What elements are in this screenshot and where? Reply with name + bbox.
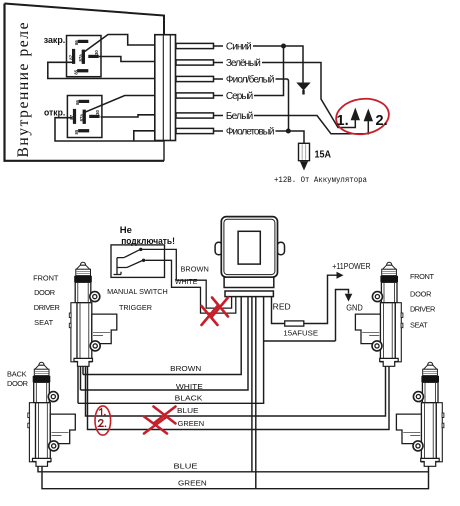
svg-text:BROWN: BROWN — [170, 364, 201, 373]
svg-text:Белый: Белый — [226, 111, 253, 122]
svg-text:87: 87 — [68, 54, 73, 59]
svg-text:откр.: откр. — [44, 107, 65, 118]
svg-text:подключать!: подключать! — [121, 236, 175, 247]
svg-text:+11POWER: +11POWER — [332, 262, 371, 271]
svg-text:DOOR: DOOR — [34, 288, 55, 297]
svg-text:Серый: Серый — [226, 91, 253, 102]
svg-text:BROWN: BROWN — [181, 264, 209, 273]
svg-text:RED: RED — [273, 303, 291, 312]
svg-text:30: 30 — [95, 110, 100, 115]
svg-text:87a: 87a — [79, 114, 84, 122]
svg-text:86: 86 — [75, 100, 80, 105]
svg-text:Зелёный: Зелёный — [226, 58, 261, 69]
svg-text:87: 87 — [69, 114, 74, 119]
svg-text:15A: 15A — [315, 148, 332, 160]
svg-text:87a: 87a — [78, 54, 83, 62]
svg-text:Фиолетовый: Фиолетовый — [226, 126, 275, 137]
svg-text:GND: GND — [346, 304, 363, 313]
svg-text:BLUE: BLUE — [174, 462, 198, 471]
svg-text:BLACK: BLACK — [175, 393, 203, 402]
svg-text:Фиол/белый: Фиол/белый — [226, 73, 275, 85]
svg-text:TRIGGER: TRIGGER — [119, 303, 152, 312]
svg-text:MANUAL SWITCH: MANUAL SWITCH — [107, 287, 168, 296]
svg-text:85: 85 — [74, 129, 79, 134]
svg-text:+12В. От Аккумулятора: +12В. От Аккумулятора — [274, 176, 367, 185]
svg-text:WHITE: WHITE — [175, 277, 198, 286]
svg-text:86: 86 — [74, 40, 79, 45]
svg-text:GREEN: GREEN — [178, 478, 207, 487]
svg-text:85: 85 — [73, 69, 78, 74]
svg-text:BACK: BACK — [7, 369, 27, 378]
svg-text:SEAT: SEAT — [34, 318, 53, 327]
svg-text:1.: 1. — [337, 113, 349, 129]
svg-text:DOOR: DOOR — [410, 290, 432, 299]
svg-text:FRONT: FRONT — [410, 272, 434, 281]
svg-text:закр.: закр. — [44, 35, 65, 46]
svg-text:2.: 2. — [376, 113, 388, 129]
svg-text:DRIVER: DRIVER — [34, 303, 60, 312]
svg-text:DOOR: DOOR — [7, 379, 28, 388]
svg-text:Синий: Синий — [226, 41, 252, 52]
svg-text:BLUE: BLUE — [177, 406, 199, 415]
svg-text:WHITE: WHITE — [176, 382, 203, 391]
svg-text:DRIVER: DRIVER — [410, 305, 435, 314]
svg-text:15AFUSE: 15AFUSE — [283, 329, 318, 338]
svg-text:30: 30 — [94, 50, 99, 55]
svg-text:SEAT: SEAT — [410, 321, 428, 330]
svg-text:Не: Не — [120, 225, 132, 236]
svg-text:GREEN: GREEN — [178, 419, 205, 428]
svg-text:FRONT: FRONT — [33, 274, 59, 283]
